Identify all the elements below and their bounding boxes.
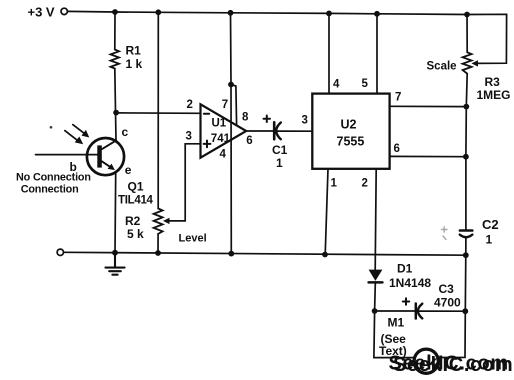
svg-text:7555: 7555 [337,135,365,149]
svg-text:U1: U1 [212,117,227,129]
node K junction dot U2 pin1/ground rail [322,252,328,258]
faint plus mark near C2 [442,227,448,240]
svg-text:4: 4 [220,148,227,160]
wire op-amp pin 2 [116,112,200,114]
wire Q1 base lead [36,154,98,156]
C3 plus sign [403,298,409,304]
wire C1 to U2 pin 3 [278,130,313,132]
wire R3 wiper loop [467,14,507,66]
wire M1 loop left [374,311,415,358]
light arrow 1 into Q1 [73,125,90,138]
svg-text:TIL414: TIL414 [118,195,154,207]
svg-text:8: 8 [242,111,249,123]
node M junction dot pin8 branch [228,82,234,88]
wire R2 wiper to op-amp pin 3 [163,144,201,224]
svg-text:Connection: Connection [21,183,79,195]
node O junction dot pin6/right vertical [463,154,469,160]
node A junction dot R1/top rail [112,9,118,15]
wire U2 pin 7 to right vertical [390,105,467,107]
svg-text:1MEG: 1MEG [477,88,511,102]
wire C2 bottom to ground rail [465,237,467,255]
svg-text:R2: R2 [125,214,141,228]
svg-text:4700: 4700 [434,296,461,310]
svg-text:4: 4 [333,78,340,90]
wire R2 top lead from rail [157,12,159,208]
svg-text:1: 1 [331,178,338,190]
node Q junction dot C3 right/right vertical [462,308,468,314]
capacitor C2 [460,231,473,238]
wire U2 pin 1 to ground rail [325,169,328,255]
node G junction dot pin2/collector [113,110,119,116]
wire right vertical R3 to C2 [466,74,467,231]
potentiometer R3 [463,52,472,73]
wire Q1 emitter to ground rail [114,174,117,253]
wire U2 pin 4 to rail [328,13,330,93]
svg-text:No Connection: No Connection [16,172,91,184]
svg-text:2: 2 [362,178,368,190]
svg-text:SeekIC.com: SeekIC.com [393,354,513,376]
node D junction dot pin4 drop/top rail [326,11,332,17]
svg-text:Q1: Q1 [128,180,144,194]
svg-text:C2: C2 [482,217,499,232]
speck artifact [50,126,53,129]
node P junction dot D1/C3/M1 [372,308,378,314]
minus input sign [204,113,209,115]
node E junction dot pin5 drop/top rail [374,11,380,17]
wire top +3V rail [68,11,468,14]
IC U2 7555 [312,94,389,169]
wire U2 pin 5 to rail [376,14,378,94]
node J junction dot U1 minus-supply/ground rail [228,251,234,257]
light arrow 2 into Q1 [65,131,83,145]
svg-text:D1: D1 [397,261,413,275]
wire U1 output to C1 [246,130,273,132]
C1 plus sign [264,116,271,123]
ground [106,253,125,275]
svg-text:c: c [122,125,129,139]
svg-text:1N4148: 1N4148 [389,276,431,290]
wire R2 bottom lead to ground rail [157,234,159,253]
svg-text:C1: C1 [272,143,288,157]
wire C3 left lead [375,310,415,312]
wire R1 bottom to pin2 node to Q1 collector [115,69,116,141]
wire C3 right lead [419,310,465,312]
svg-text:5: 5 [362,78,369,90]
node F junction dot R3/top rail [464,12,470,18]
node N junction dot pin7/right vertical [463,104,469,110]
svg-text:7: 7 [222,99,228,111]
wire U1 supply line top rail to bottom rail [230,13,233,254]
wire R1 top lead [114,12,116,50]
wire R3 top lead [466,15,468,53]
wire M1 loop right [438,311,465,357]
node I junction dot R2/ground rail [155,250,161,256]
svg-text:+3 V: +3 V [28,5,55,20]
svg-text:U2: U2 [341,118,357,132]
svg-text:Scale: Scale [427,61,457,73]
wire bottom ground rail [64,252,466,255]
op-amp U1 [201,104,247,157]
svg-text:Level: Level [179,233,207,245]
svg-text:5 k: 5 k [127,227,144,241]
svg-text:R3: R3 [485,75,501,89]
capacitor C3 [416,304,423,319]
node H junction dot emitter/ground rail [112,250,118,256]
svg-text:C3: C3 [439,282,455,296]
svg-text:3: 3 [186,130,192,142]
svg-text:1: 1 [486,232,493,246]
svg-text:M1: M1 [388,316,405,330]
potentiometer R2 [154,209,163,234]
svg-text:2: 2 [187,99,193,111]
svg-text:7: 7 [395,92,401,104]
diode D1 [369,270,383,283]
svg-text:1 k: 1 k [126,57,143,71]
capacitor C1 [274,122,281,139]
svg-text:3: 3 [302,114,308,126]
meter M1 [414,349,438,373]
node L junction dot right vertical/ground rail [463,252,469,258]
svg-text:741: 741 [211,133,231,145]
terminal +3V [61,8,67,14]
wire right vertical rail to C3 node [464,255,467,311]
wire U1 pin 8 stub [231,85,237,126]
wire D1 cathode to C3 node [374,284,377,311]
node C junction dot U1 supply/top rail [228,10,234,16]
wire U2 pin 2 down through rail to D1 [375,169,376,270]
terminal ground rail left [57,249,63,255]
resistor R1 [111,50,120,69]
svg-text:6: 6 [246,135,252,147]
svg-text:1: 1 [276,156,283,170]
transistor Q1 [87,138,124,175]
node B junction dot R2/top rail [155,9,161,15]
svg-text:e: e [125,163,132,177]
svg-text:6: 6 [394,143,400,155]
plus input sign [204,141,211,148]
wire U2 pin 6 to right vertical [390,155,466,157]
svg-text:R1: R1 [126,44,142,58]
